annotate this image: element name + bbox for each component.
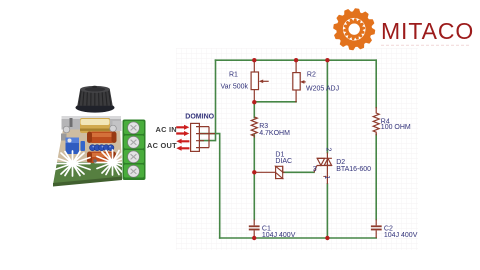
potentiometer brass body	[80, 118, 110, 133]
svg-text:R2: R2	[307, 72, 316, 79]
wire top to triac	[326, 60, 328, 152]
svg-text:104J 400V: 104J 400V	[262, 232, 296, 239]
logo tagline dashes	[381, 44, 470, 46]
svg-text:BTA16-600: BTA16-600	[336, 166, 371, 173]
blue bead row	[90, 145, 114, 151]
AC IN arrow 1	[176, 125, 189, 130]
PCB beige top face	[57, 130, 122, 163]
junction C1 bottom	[252, 236, 256, 240]
junction D2 bottom	[325, 236, 329, 240]
resistor R4 zigzag	[373, 107, 379, 135]
schematic grid background	[176, 48, 418, 250]
svg-text:W205 ADJ: W205 ADJ	[306, 86, 339, 93]
wire R2 bottom to junction	[254, 101, 296, 103]
svg-text:AC IN: AC IN	[156, 125, 177, 134]
capacitor C2	[371, 220, 382, 239]
orange capacitor 2	[87, 152, 116, 164]
svg-text:R1: R1	[229, 72, 238, 79]
PCB dark bottom edge	[53, 177, 122, 187]
resistor R2 (pot)	[293, 60, 306, 102]
wire left upper vertical (pin3 to top)	[200, 60, 216, 140]
diac D1	[254, 166, 284, 179]
PCB green lower part	[53, 162, 122, 185]
svg-text:104J 400V: 104J 400V	[384, 232, 418, 239]
schematic text labels	[221, 72, 418, 240]
svg-text:DIAC: DIAC	[275, 158, 292, 165]
wire R3 to diac junction	[253, 135, 255, 172]
knob skirt	[76, 103, 115, 113]
mounting nuts	[63, 126, 70, 133]
junction R1/R2 bottom	[252, 100, 256, 104]
white heatsink starburst left	[52, 151, 90, 176]
connector DOMINO box	[191, 123, 215, 151]
wire diac junction to C1	[253, 172, 255, 219]
wire bottom horizontal	[220, 237, 377, 239]
svg-text:Var 500k: Var 500k	[221, 84, 249, 91]
junction D2 top	[325, 58, 329, 62]
wire left lower vertical (pin2 to bottom)	[200, 134, 220, 238]
blue trimmer	[61, 134, 85, 155]
svg-text:D2: D2	[336, 159, 345, 166]
svg-text:DOMINO: DOMINO	[185, 113, 214, 120]
wire right vertical	[375, 60, 377, 107]
svg-text:AC OUT: AC OUT	[147, 141, 177, 150]
AC IN arrow 2	[176, 131, 189, 136]
wire R1R2 junction to R3	[253, 103, 255, 118]
junction R3/D1/C1	[252, 170, 256, 174]
logo gear	[334, 9, 375, 50]
svg-text:1: 1	[323, 175, 330, 179]
junction R1 top	[252, 58, 256, 62]
svg-text:2: 2	[324, 148, 331, 152]
svg-text:MITACO: MITACO	[381, 18, 474, 44]
junction R2 top	[294, 58, 298, 62]
white heatsink starburst right	[95, 150, 129, 175]
metal bracket	[62, 116, 122, 131]
AC OUT arrow 2	[176, 146, 189, 151]
svg-text:4.7KOHM: 4.7KOHM	[259, 130, 290, 137]
wire top horizontal	[216, 59, 377, 61]
AC OUT arrow 1	[176, 139, 189, 144]
svg-text:3: 3	[313, 166, 317, 173]
resistor R3 zigzag	[251, 117, 257, 138]
green terminal block	[123, 120, 146, 181]
wire diac to triac gate	[283, 171, 314, 173]
triac D2	[314, 153, 332, 185]
orange capacitor 1	[87, 132, 117, 144]
capacitor C1	[249, 220, 260, 239]
svg-text:100 OHM: 100 OHM	[381, 124, 411, 131]
wire triac to bottom	[326, 184, 328, 238]
resistor R1 (pot)	[251, 60, 269, 102]
knob body	[77, 86, 112, 106]
